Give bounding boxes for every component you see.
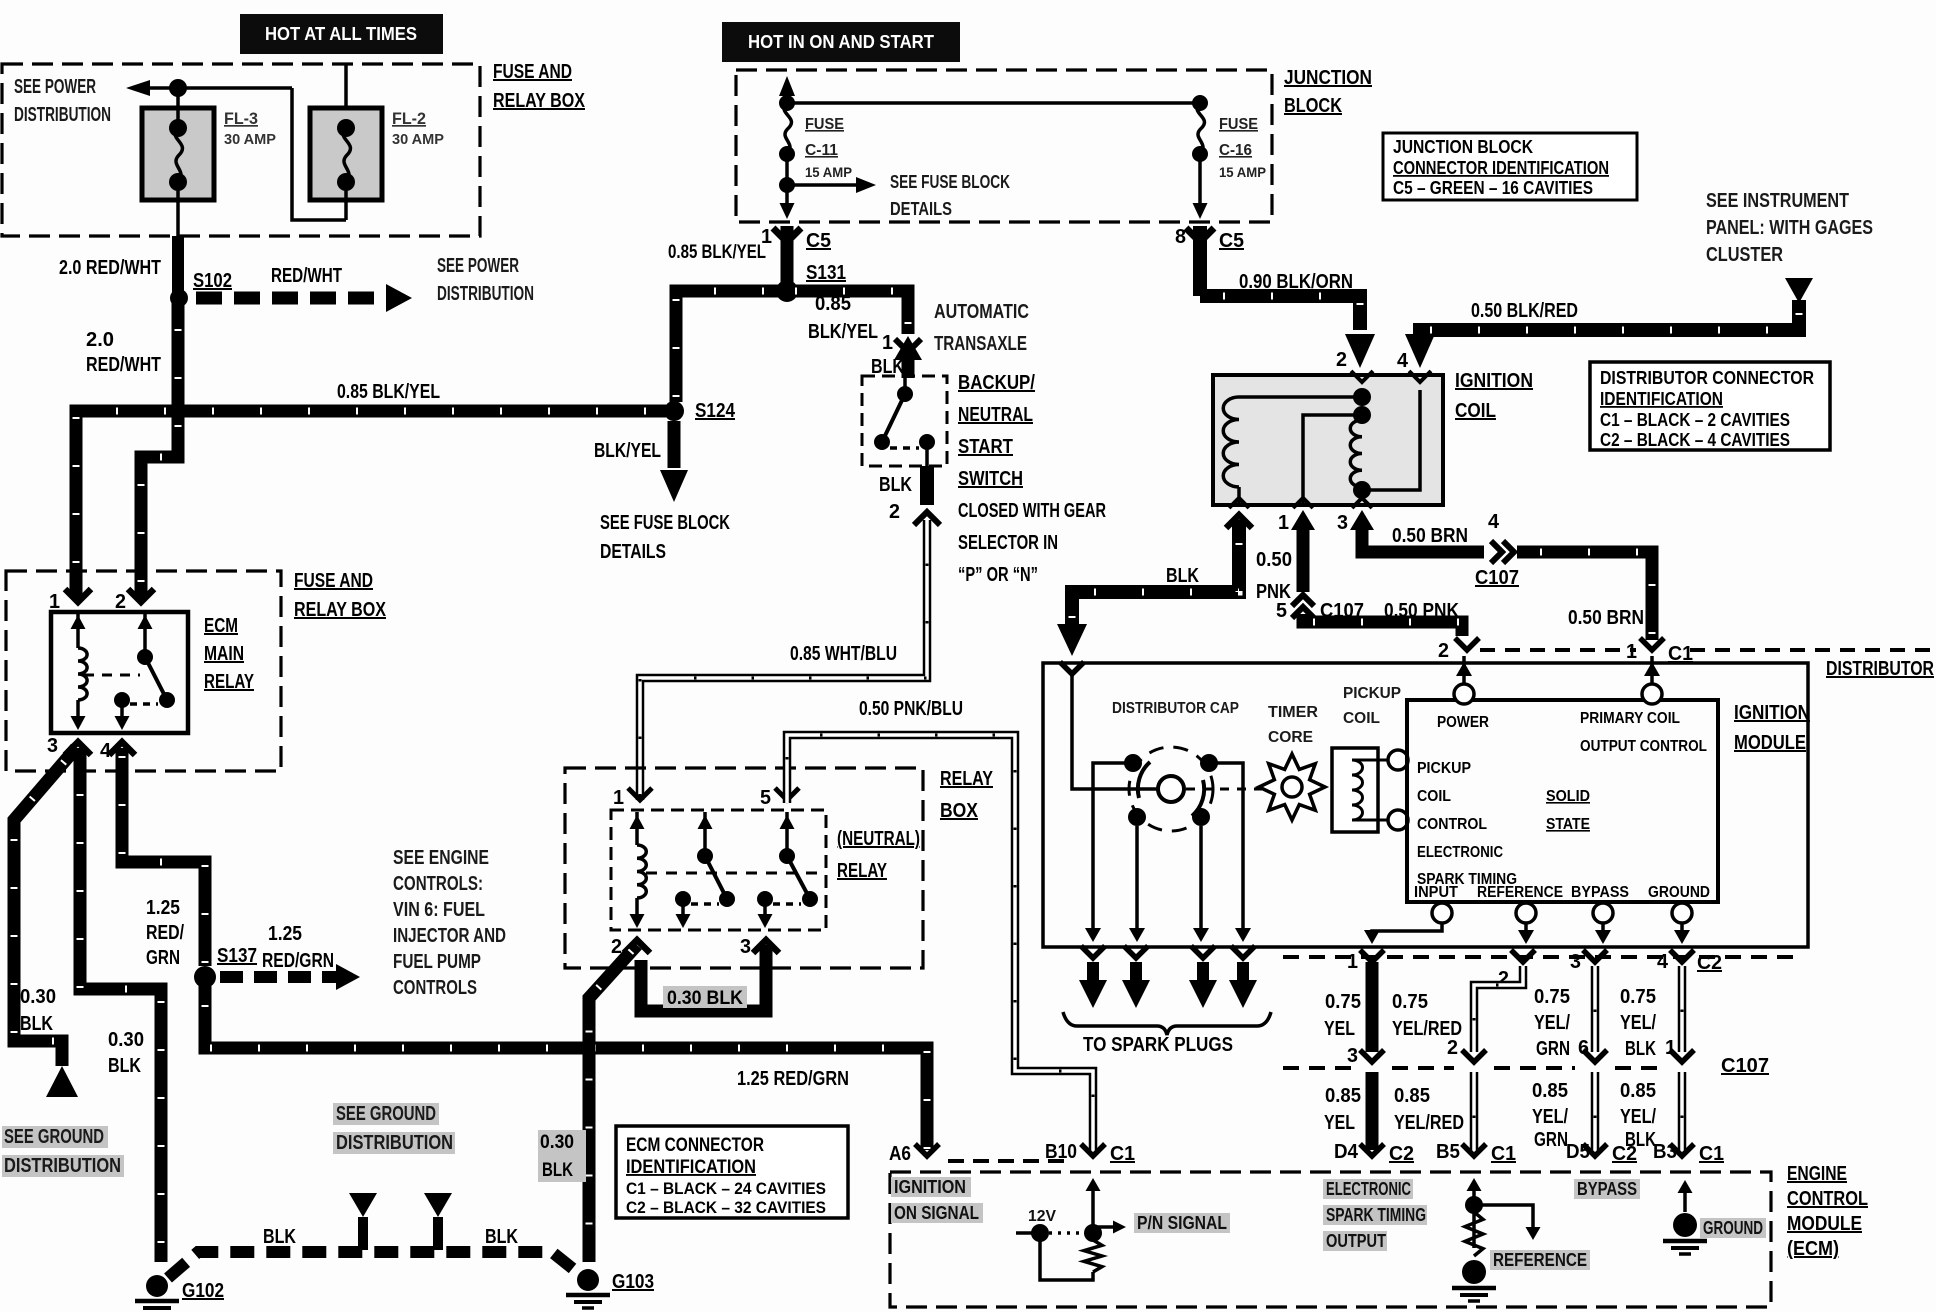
svg-text:0.85: 0.85: [1620, 1080, 1656, 1102]
svg-text:BLK/YEL: BLK/YEL: [808, 321, 878, 343]
svg-text:DISTRIBUTION: DISTRIBUTION: [14, 104, 111, 126]
svg-text:SEE GROUND: SEE GROUND: [336, 1103, 436, 1125]
svg-text:YEL: YEL: [1324, 1018, 1355, 1040]
svg-text:FL-2: FL-2: [392, 109, 426, 128]
svg-text:AUTOMATIC: AUTOMATIC: [934, 301, 1029, 323]
svg-text:COIL: COIL: [1343, 710, 1380, 727]
connector: relay pin 1: [65, 589, 91, 602]
label 0.30 BLK on loop: [663, 986, 747, 1008]
svg-text:OUTPUT: OUTPUT: [1326, 1231, 1386, 1251]
off-page connector: ground triangle: [46, 1066, 78, 1097]
svg-text:FUEL PUMP: FUEL PUMP: [393, 951, 481, 973]
wire: 1.25 RED/GRN from S137 to ECM pin A6: [205, 977, 927, 1150]
svg-text:C2 – BLACK – 32 CAVITIES: C2 – BLACK – 32 CAVITIES: [626, 1198, 826, 1217]
wire: feed with left arrow to power distribution: [138, 86, 292, 90]
label: P/N signal: [1134, 1213, 1230, 1233]
connector: distributor C2 cavity 1: [1360, 950, 1384, 962]
svg-text:0.30: 0.30: [108, 1029, 144, 1051]
svg-text:B3: B3: [1653, 1141, 1677, 1163]
svg-text:1: 1: [613, 787, 624, 809]
svg-text:CONTROL: CONTROL: [1417, 816, 1487, 833]
relay box dashed enclosure: [565, 768, 923, 968]
svg-text:SELECTOR IN: SELECTOR IN: [958, 532, 1058, 554]
svg-text:2: 2: [889, 501, 900, 523]
svg-text:JUNCTION: JUNCTION: [1284, 67, 1372, 89]
cap wiring to spark outputs: [1072, 674, 1157, 789]
svg-text:1: 1: [882, 332, 893, 354]
svg-text:RED/: RED/: [146, 922, 184, 944]
label: bypass: [1574, 1179, 1640, 1199]
wire: 0.85 YEL/RED to ECM B5: [1470, 1072, 1479, 1150]
svg-text:FL-3: FL-3: [224, 109, 258, 128]
distributor outer box: [1043, 663, 1808, 947]
svg-text:C1: C1: [1110, 1143, 1135, 1165]
distributor connector identification box: [1590, 362, 1830, 450]
svg-text:S137: S137: [217, 945, 257, 967]
connector: neutral relay pin 3: [753, 940, 779, 953]
off-page ground triangle 2: [424, 1193, 452, 1217]
svg-text:CORE: CORE: [1268, 729, 1313, 746]
ground G103: [577, 1269, 599, 1291]
svg-text:2.0 RED/WHT: 2.0 RED/WHT: [59, 257, 161, 279]
junction block dashed enclosure: [736, 70, 1272, 222]
svg-text:BLK: BLK: [1625, 1038, 1656, 1060]
wire: 0.85 YEL/BLK to ECM B3: [1678, 1072, 1687, 1150]
connector C5 cavity 1: [781, 226, 794, 288]
svg-text:C2: C2: [1389, 1143, 1414, 1165]
svg-text:30 AMP: 30 AMP: [224, 131, 276, 148]
svg-text:0.90 BLK/ORN: 0.90 BLK/ORN: [1239, 271, 1353, 293]
wire: FL-2 input from hot at all times: [344, 64, 348, 128]
svg-text:IGNITION: IGNITION: [1455, 370, 1533, 392]
svg-text:C1: C1: [1699, 1143, 1724, 1165]
svg-text:FUSE AND: FUSE AND: [294, 570, 373, 592]
svg-text:YEL/: YEL/: [1532, 1106, 1568, 1128]
connector: coil pin 1 0.50 PNK to C107-5: [1291, 510, 1315, 530]
svg-text:SEE POWER: SEE POWER: [14, 76, 96, 98]
svg-text:ECM: ECM: [204, 615, 238, 637]
svg-text:1.25 RED/GRN: 1.25 RED/GRN: [737, 1068, 849, 1090]
svg-text:PRIMARY COIL: PRIMARY COIL: [1580, 710, 1680, 727]
switch contacts inside backup/neutral start switch: [903, 378, 907, 394]
svg-text:PICKUP: PICKUP: [1417, 760, 1471, 777]
svg-text:3: 3: [1570, 951, 1581, 973]
ignition module box: [1407, 700, 1718, 902]
svg-text:GROUND: GROUND: [1703, 1218, 1763, 1238]
svg-text:0.30: 0.30: [20, 986, 56, 1008]
svg-text:JUNCTION BLOCK: JUNCTION BLOCK: [1393, 137, 1533, 157]
svg-text:IDENTIFICATION: IDENTIFICATION: [626, 1157, 756, 1178]
svg-text:BLK: BLK: [879, 474, 912, 496]
svg-text:FUSE: FUSE: [805, 116, 844, 133]
connector: ECM pin A6: [915, 1144, 939, 1156]
svg-text:HOT AT ALL TIMES: HOT AT ALL TIMES: [265, 24, 417, 44]
svg-text:REFERENCE: REFERENCE: [1493, 1250, 1587, 1270]
svg-text:1: 1: [1665, 1037, 1676, 1059]
svg-text:0.85: 0.85: [1532, 1080, 1568, 1102]
svg-text:4: 4: [100, 740, 112, 762]
svg-text:(ECM): (ECM): [1787, 1238, 1839, 1260]
svg-text:RELAY BOX: RELAY BOX: [294, 599, 387, 621]
wire: 0.85 BLK/YEL from S124 to ECM main relay pin 1: [76, 411, 666, 598]
svg-text:GRN: GRN: [146, 947, 180, 969]
fuse and relay box (top) dashed enclosure: [2, 64, 480, 236]
svg-text:0.85: 0.85: [1325, 1085, 1361, 1107]
svg-text:SPARK TIMING: SPARK TIMING: [1326, 1205, 1426, 1225]
svg-text:0.85 BLK/YEL: 0.85 BLK/YEL: [668, 242, 766, 263]
svg-text:(NEUTRAL): (NEUTRAL): [837, 828, 920, 850]
wire: junction block internal bus: [787, 101, 1200, 105]
svg-text:BACKUP/: BACKUP/: [958, 372, 1035, 394]
svg-text:0.50 PNK/BLU: 0.50 PNK/BLU: [859, 698, 963, 720]
svg-text:0.85: 0.85: [815, 293, 851, 315]
connector: distributor C2 cavity 2: [1511, 950, 1535, 962]
svg-text:0.75: 0.75: [1392, 991, 1428, 1013]
svg-text:BYPASS: BYPASS: [1571, 884, 1629, 901]
svg-text:BLK: BLK: [108, 1055, 141, 1077]
brace to spark plugs: [1063, 1012, 1271, 1035]
connector: relay pin 3: [65, 742, 91, 755]
svg-text:D4: D4: [1334, 1141, 1359, 1163]
wire: 0.75 YEL to C107-3: [1366, 962, 1379, 1052]
svg-text:30 AMP: 30 AMP: [392, 131, 444, 148]
svg-text:ON SIGNAL: ON SIGNAL: [894, 1203, 979, 1223]
label: see ground distribution (left): [2, 1126, 108, 1148]
ignition coil primary winding: [1239, 395, 1362, 399]
svg-text:2: 2: [1438, 640, 1449, 662]
wire: relay pin 3 to ground G102: [80, 748, 161, 1262]
svg-text:4: 4: [1488, 511, 1500, 533]
module power pin to distributor pin 2: [1454, 684, 1474, 704]
svg-text:DISTRIBUTION: DISTRIBUTION: [336, 1132, 453, 1154]
svg-text:2: 2: [1447, 1037, 1458, 1059]
ignition coil pins bottom: [1229, 498, 1249, 508]
svg-text:IGNITION: IGNITION: [894, 1177, 966, 1197]
svg-text:RED/WHT: RED/WHT: [271, 265, 342, 287]
wire: 0.75 YEL/GRN to C107-6: [1591, 966, 1600, 1052]
svg-text:NEUTRAL: NEUTRAL: [958, 404, 1033, 426]
connector: distributor pin 2 (C2): [1455, 638, 1479, 650]
svg-text:SEE POWER: SEE POWER: [437, 255, 519, 277]
wire: S137 arrow to engine controls: [220, 971, 336, 983]
svg-text:MODULE: MODULE: [1787, 1213, 1862, 1235]
connector C107 cavity 4 inline: [1491, 541, 1502, 563]
ignition coil box: [1213, 375, 1443, 505]
svg-text:3: 3: [1347, 1045, 1358, 1067]
svg-text:SOLID: SOLID: [1546, 788, 1590, 805]
wire: S131 right to automatic transaxle connector: [787, 291, 908, 334]
svg-text:2.0: 2.0: [86, 329, 114, 351]
node S131: [776, 280, 798, 302]
wire: relay pin2 to ground G103 0.30 BLK: [589, 945, 637, 1262]
label: HOT AT ALL TIMES: [240, 14, 443, 54]
svg-text:TO SPARK PLUGS: TO SPARK PLUGS: [1083, 1034, 1233, 1056]
svg-text:YEL/: YEL/: [1620, 1012, 1656, 1034]
connector: coil pin 3 0.50 BRN to C107-4: [1350, 510, 1374, 530]
ignition coil secondary winding: [1353, 406, 1371, 424]
svg-text:GRN: GRN: [1536, 1038, 1570, 1060]
svg-text:REFERENCE: REFERENCE: [1477, 884, 1563, 901]
connector: coil pin 1 bottom BLK to distributor: [1226, 515, 1252, 528]
svg-text:OUTPUT CONTROL: OUTPUT CONTROL: [1580, 738, 1707, 755]
connector: distributor C2 cavity 4: [1670, 950, 1694, 962]
connector: neutral relay pin 5: [775, 788, 799, 800]
svg-text:1.25: 1.25: [146, 897, 180, 919]
svg-text:0.85 BLK/YEL: 0.85 BLK/YEL: [337, 381, 440, 403]
svg-text:IDENTIFICATION: IDENTIFICATION: [1600, 389, 1723, 409]
neutral relay switch center: [703, 812, 707, 856]
svg-text:“P” OR “N”: “P” OR “N”: [958, 564, 1038, 586]
connector: neutral relay pin 2: [624, 940, 650, 953]
wire: arrow to see fuse block details (junction): [787, 183, 860, 187]
svg-text:BLK: BLK: [1166, 565, 1199, 587]
svg-text:3: 3: [1337, 512, 1348, 534]
svg-text:TRANSAXLE: TRANSAXLE: [934, 333, 1027, 355]
svg-text:PANEL: WITH GAGES: PANEL: WITH GAGES: [1706, 217, 1873, 239]
wire: S131 left and down to S124: [676, 291, 787, 402]
svg-text:FUSE AND: FUSE AND: [493, 61, 572, 83]
wire: BLK/YEL arrow down to fuse block details: [668, 421, 681, 468]
svg-text:GROUND: GROUND: [1648, 884, 1710, 901]
neutral relay switch right: [785, 812, 789, 856]
connector: distributor C2 cavity 3: [1583, 950, 1607, 962]
svg-text:B10: B10: [1045, 1141, 1077, 1163]
svg-text:S102: S102: [193, 270, 232, 292]
ignition coil pins top: [1351, 371, 1373, 382]
label: see ground distribution (center): [333, 1103, 439, 1125]
svg-text:FUSE: FUSE: [1219, 116, 1258, 133]
off-page ground triangle 1: [349, 1193, 377, 1217]
wire: 0.50 PNK/BLU from relay pin 5 to ECM pin B10: [787, 735, 1093, 1150]
svg-text:2: 2: [115, 591, 126, 613]
wire: 2.0 RED/WHT from S102 down to ECM main relay pin 2: [141, 298, 178, 598]
svg-text:YEL: YEL: [1324, 1112, 1355, 1134]
connector: relay pin 4: [109, 742, 135, 755]
svg-text:BLK: BLK: [485, 1226, 518, 1248]
svg-text:12V: 12V: [1028, 1208, 1056, 1225]
connector: ECM pin D4 C2: [1360, 1144, 1384, 1156]
svg-text:ELECTRONIC: ELECTRONIC: [1417, 844, 1503, 861]
fusible link FL-3 30A: [142, 108, 214, 200]
svg-text:C-16: C-16: [1219, 142, 1252, 159]
svg-text:SEE ENGINE: SEE ENGINE: [393, 847, 489, 869]
spark plug output arrows: [1081, 946, 1105, 958]
C107 dashed line: [1283, 1066, 1352, 1070]
svg-text:P/N SIGNAL: P/N SIGNAL: [1137, 1213, 1227, 1233]
neutral relay dashed box: [611, 810, 826, 930]
svg-text:C107: C107: [1721, 1055, 1769, 1077]
wire: 2.0 RED/WHT from FL-3 to S102: [172, 236, 184, 298]
backup/neutral start switch dashed box: [862, 376, 947, 466]
svg-text:BOX: BOX: [940, 800, 979, 822]
svg-text:YEL/RED: YEL/RED: [1394, 1112, 1464, 1134]
svg-text:CONTROLS: CONTROLS: [393, 977, 477, 999]
svg-text:0.75: 0.75: [1325, 991, 1361, 1013]
ECM main relay box: [51, 612, 188, 733]
ECM connector identification box: [616, 1126, 848, 1218]
svg-text:BYPASS: BYPASS: [1577, 1179, 1637, 1199]
svg-text:RED/GRN: RED/GRN: [262, 950, 334, 972]
label: ground (ECM): [1700, 1218, 1766, 1238]
node S124: [664, 401, 684, 421]
wire: 0.50 BLK/RED to ignition coil pin 4: [1420, 300, 1799, 334]
svg-text:PICKUP: PICKUP: [1343, 685, 1401, 702]
svg-text:CONNECTOR IDENTIFICATION: CONNECTOR IDENTIFICATION: [1393, 158, 1609, 178]
svg-text:C5: C5: [1219, 230, 1244, 252]
svg-text:SWITCH: SWITCH: [958, 468, 1023, 490]
svg-text:C1: C1: [1491, 1143, 1516, 1165]
ECM ground circuit: [1683, 1188, 1687, 1212]
svg-text:4: 4: [1397, 350, 1409, 372]
wire: 0.90 BLK/ORN to ignition coil pin 2: [1200, 296, 1360, 330]
svg-text:1: 1: [1278, 512, 1289, 534]
svg-text:RED/WHT: RED/WHT: [86, 354, 161, 376]
dashed rotor link to timer core: [1186, 788, 1262, 791]
svg-text:G103: G103: [612, 1271, 654, 1293]
wire: relay pin 3 to off-page ground triangle: [14, 748, 76, 1066]
svg-text:RELAY: RELAY: [940, 768, 994, 790]
svg-text:CONTROLS:: CONTROLS:: [393, 873, 483, 895]
wire: relay pin 4 1.25 RED/GRN to S137: [122, 748, 205, 966]
connector: ECM pin B10 C1: [1081, 1144, 1105, 1156]
svg-text:6: 6: [1578, 1037, 1589, 1059]
junction block connector identification box: [1383, 133, 1637, 200]
svg-text:INJECTOR AND: INJECTOR AND: [393, 925, 506, 947]
svg-text:DISTRIBUTION: DISTRIBUTION: [4, 1155, 121, 1177]
svg-text:0.50 PNK: 0.50 PNK: [1384, 600, 1459, 622]
neutral relay coil pin1-pin2: [635, 812, 639, 845]
svg-text:DETAILS: DETAILS: [600, 541, 666, 563]
svg-text:C2: C2: [1697, 952, 1722, 974]
svg-text:YEL/: YEL/: [1620, 1106, 1656, 1128]
svg-text:RELAY: RELAY: [837, 860, 887, 882]
ECM 12V P/N signal circuit: [1091, 1186, 1095, 1233]
svg-text:3: 3: [47, 735, 58, 757]
svg-text:DISTRIBUTION: DISTRIBUTION: [437, 283, 534, 305]
svg-text:CLUSTER: CLUSTER: [1706, 244, 1783, 266]
svg-text:COIL: COIL: [1455, 400, 1496, 422]
svg-text:C-11: C-11: [805, 142, 838, 159]
svg-text:BLK: BLK: [263, 1226, 296, 1248]
svg-text:1: 1: [1347, 951, 1358, 973]
node S102: [170, 289, 188, 307]
connector C2 dashed line under distributor: [1283, 955, 1800, 959]
ECM connector row dashed segment: [948, 1159, 1072, 1163]
svg-text:B5: B5: [1436, 1141, 1460, 1163]
svg-text:C2: C2: [1612, 1143, 1637, 1165]
svg-text:8: 8: [1175, 226, 1186, 248]
svg-text:DISTRIBUTOR CONNECTOR: DISTRIBUTOR CONNECTOR: [1600, 368, 1814, 388]
connector: ECM pin B5 C1: [1462, 1144, 1486, 1156]
cap terminal dots: [1124, 754, 1142, 772]
svg-text:CLOSED WITH GEAR: CLOSED WITH GEAR: [958, 500, 1106, 522]
svg-text:POWER: POWER: [1437, 714, 1489, 731]
svg-text:C2 – BLACK – 4 CAVITIES: C2 – BLACK – 4 CAVITIES: [1600, 430, 1790, 450]
svg-text:BLK: BLK: [20, 1013, 53, 1035]
svg-text:CONTROL: CONTROL: [1787, 1188, 1868, 1210]
wire: 0.85 WHT/BLU from backup switch to relay box pin 1: [640, 520, 927, 800]
connector: distributor pin 1 C1: [1640, 638, 1664, 650]
node: junction above fusible link FL-3: [169, 79, 187, 97]
svg-text:0.85 WHT/BLU: 0.85 WHT/BLU: [790, 643, 897, 665]
wire: 0.85 YEL/GRN to ECM D5: [1591, 1072, 1600, 1150]
svg-text:YEL/: YEL/: [1534, 1012, 1570, 1034]
svg-text:ECM CONNECTOR: ECM CONNECTOR: [626, 1135, 764, 1156]
off-page triangle from instrument panel: [1785, 278, 1813, 303]
svg-text:1: 1: [49, 591, 60, 613]
svg-text:A6: A6: [889, 1143, 911, 1165]
svg-text:SEE FUSE BLOCK: SEE FUSE BLOCK: [600, 512, 730, 534]
label 0.30 BLK near G103: [538, 1130, 586, 1182]
svg-text:C5: C5: [806, 230, 831, 252]
module primary coil output pin to pin 1 C1: [1642, 684, 1662, 704]
wire: BLK ground bus G102 to G103: [168, 1252, 582, 1278]
svg-text:0.50 BRN: 0.50 BRN: [1392, 525, 1468, 547]
fuse and relay box (lower) dashed enclosure: [6, 571, 281, 771]
svg-text:0.75: 0.75: [1534, 986, 1570, 1008]
svg-text:S131: S131: [806, 262, 846, 284]
svg-text:2: 2: [1336, 349, 1347, 371]
svg-text:0.30: 0.30: [540, 1132, 574, 1153]
svg-text:C5 – GREEN – 16 CAVITIES: C5 – GREEN – 16 CAVITIES: [1393, 178, 1593, 198]
svg-text:C107: C107: [1475, 567, 1519, 589]
svg-text:0.30 BLK: 0.30 BLK: [667, 988, 743, 1009]
neutral relay linkage dashed: [646, 872, 820, 875]
svg-text:COIL: COIL: [1417, 788, 1451, 805]
svg-text:RELAY: RELAY: [204, 671, 254, 693]
svg-text:0.75: 0.75: [1620, 986, 1656, 1008]
wire: 0.50 BRN to distributor pin 1 C1: [1517, 552, 1652, 640]
relay internal linkage dashed: [84, 674, 140, 677]
svg-text:ENGINE: ENGINE: [1787, 1163, 1847, 1185]
connector: ECM pin B3 C1: [1670, 1144, 1694, 1156]
svg-text:HOT IN ON AND START: HOT IN ON AND START: [748, 32, 934, 52]
label: electronic spark timing output: [1323, 1179, 1413, 1199]
connector pin at distributor top BLK: [1060, 662, 1084, 674]
fuse C-16 15A: [1192, 95, 1208, 111]
svg-text:C1 – BLACK – 24 CAVITIES: C1 – BLACK – 24 CAVITIES: [626, 1179, 826, 1198]
wire: 0.75 YEL/RED to C107-2: [1474, 966, 1523, 1052]
svg-text:TIMER: TIMER: [1268, 704, 1318, 721]
connector C5 cavity 8: [1193, 226, 1207, 296]
svg-text:0.85: 0.85: [1394, 1085, 1430, 1107]
svg-text:DETAILS: DETAILS: [890, 199, 952, 219]
svg-text:BLK/YEL: BLK/YEL: [594, 440, 661, 462]
dashed connector line between pins: [1480, 648, 1636, 652]
svg-text:SEE FUSE BLOCK: SEE FUSE BLOCK: [890, 172, 1010, 192]
svg-text:3: 3: [740, 936, 751, 958]
connector: neutral relay pin 1: [628, 788, 652, 800]
module bottom pins input reference bypass ground: [1432, 903, 1452, 923]
fuse C-11 15A: [785, 94, 789, 103]
node S137: [194, 966, 216, 988]
svg-text:DISTRIBUTOR: DISTRIBUTOR: [1826, 658, 1934, 680]
svg-text:MAIN: MAIN: [204, 643, 244, 665]
svg-text:INPUT: INPUT: [1414, 884, 1458, 901]
connector: relay pin 2: [128, 589, 154, 602]
svg-text:5: 5: [760, 787, 771, 809]
svg-text:STATE: STATE: [1546, 816, 1590, 833]
svg-text:DISTRIBUTOR CAP: DISTRIBUTOR CAP: [1112, 700, 1239, 717]
relay coil pin1-pin3: [76, 612, 80, 648]
svg-text:GRN: GRN: [1534, 1129, 1568, 1151]
wire: relay pin3 loop to pin2 wire: [641, 945, 766, 1011]
svg-text:MODULE: MODULE: [1734, 732, 1806, 754]
svg-text:4: 4: [1657, 951, 1669, 973]
svg-text:BLOCK: BLOCK: [1284, 95, 1342, 117]
svg-text:0.50 BRN: 0.50 BRN: [1568, 607, 1644, 629]
svg-text:15 AMP: 15 AMP: [805, 164, 852, 180]
